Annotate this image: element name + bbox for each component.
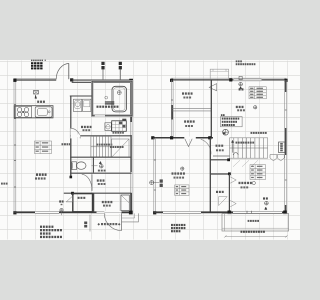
1F hall label bbox=[97, 179, 99, 181]
1F washroom door bbox=[69, 128, 71, 138]
2F stairs labels bbox=[251, 132, 253, 134]
reference grid bbox=[0, 61, 300, 240]
1F washer and vanity bbox=[74, 99, 82, 111]
1F kitchen counter bbox=[14, 106, 53, 118]
2F fukinuke label bbox=[150, 181, 154, 185]
1F top wall left segment bbox=[14, 77, 57, 79]
1F washroom north wall bbox=[70, 95, 92, 97]
1F kitchen symbol bbox=[34, 90, 39, 94]
2F room9 label bbox=[172, 172, 174, 174]
1F entrance door bbox=[121, 213, 123, 230]
1F sink bbox=[35, 107, 52, 117]
2F wall room10-11 bbox=[172, 108, 211, 110]
1F wall toilet west bbox=[70, 138, 72, 177]
1F toilet bbox=[72, 162, 77, 170]
1F understairs storage bbox=[112, 139, 129, 157]
1F storage door leaf bbox=[66, 196, 72, 202]
2F hall landing edge bbox=[213, 155, 230, 157]
2F fukinuke annotation bbox=[221, 114, 223, 116]
1F bath north wall bbox=[72, 79, 132, 81]
1F bath faucet bbox=[105, 101, 114, 102]
1F washing machine bbox=[105, 123, 111, 131]
1F hall south wall bbox=[64, 192, 132, 194]
1F legend black squares bbox=[31, 60, 33, 62]
2F room6 table bbox=[250, 165, 266, 180]
1F water heater label bbox=[113, 132, 115, 134]
2F right wall bbox=[284, 80, 286, 213]
1F hall north wall bbox=[70, 172, 131, 174]
2F room12 label bbox=[236, 106, 238, 108]
1F vent symbol right bbox=[119, 62, 122, 65]
1F porch label bbox=[97, 223, 100, 226]
2F balcony bbox=[222, 214, 289, 231]
2F vent top bbox=[239, 76, 242, 79]
1F toilet vent bbox=[99, 161, 101, 163]
2F hall door arc bbox=[201, 139, 211, 154]
2F room10 label bbox=[182, 92, 184, 94]
2F jog wall bbox=[152, 137, 213, 139]
2F stair arrow bbox=[232, 141, 234, 152]
1F bottom wall bbox=[14, 211, 132, 213]
1F back door bbox=[68, 63, 70, 79]
2F room9 table bbox=[175, 185, 189, 196]
2F closet bump right bbox=[279, 142, 285, 153]
1F understairs label bbox=[62, 143, 64, 145]
1F LDK label bbox=[36, 173, 38, 176]
2F vent bottom bbox=[263, 197, 265, 199]
1F washroom south wall bbox=[70, 135, 131, 137]
1F top wall pillar bbox=[70, 78, 73, 81]
1F bathtub bbox=[112, 86, 127, 112]
2F room9 door leaf bbox=[185, 139, 192, 147]
1F water heater bbox=[112, 121, 127, 132]
2F balcony hanger label bbox=[248, 220, 250, 222]
2F bottom wall bbox=[154, 211, 286, 213]
1F toilet east wall bbox=[92, 157, 94, 172]
1F porch steps bbox=[122, 213, 139, 222]
1F terrace label bbox=[59, 200, 61, 202]
1F toilet label bbox=[98, 170, 100, 172]
1F LDK table bbox=[35, 141, 52, 154]
1F shoe cabinet bbox=[121, 195, 129, 211]
1F stairs bbox=[91, 136, 111, 157]
1F storage bbox=[73, 194, 93, 212]
1F corner pillar NE bbox=[129, 79, 133, 83]
2F dormer outline bbox=[210, 69, 228, 79]
1F bath door sliding bbox=[95, 114, 105, 117]
2F balcony label bbox=[241, 231, 243, 233]
1F genkan label bbox=[102, 201, 104, 203]
2F room10 door bbox=[209, 84, 216, 91]
2F wall below stairs bbox=[210, 159, 230, 161]
2F stairs bbox=[230, 138, 268, 158]
2F ceiling hatch bbox=[233, 160, 240, 167]
2F notes text block bbox=[171, 224, 173, 226]
1F washroom label bbox=[81, 126, 83, 128]
2F hall label bbox=[216, 145, 218, 147]
2F balcony door leaf bbox=[219, 197, 228, 206]
2F interior wall x210 lower bbox=[209, 138, 211, 213]
1F bottom big pillar bbox=[129, 211, 133, 215]
2F caption text bbox=[236, 60, 238, 62]
2F room9 vent bbox=[181, 167, 184, 170]
1F genkan wall bbox=[93, 193, 95, 212]
2F interior wall x212 bbox=[210, 81, 212, 138]
2F top wall bbox=[171, 77, 286, 79]
2F left wall lower bbox=[153, 138, 155, 214]
white drawing band bbox=[0, 60, 300, 240]
2F room11 label bbox=[184, 120, 186, 122]
1F bath label bbox=[97, 106, 99, 108]
2F room12 table bbox=[249, 87, 266, 99]
1F right wall bbox=[129, 81, 131, 213]
1F stairs label bbox=[96, 144, 98, 146]
1F vent symbol left bbox=[101, 62, 104, 65]
1F notes text block bbox=[40, 226, 42, 228]
1F wall washroom west bbox=[70, 96, 72, 128]
2F room6 label bbox=[239, 182, 241, 184]
left edge dimension label bbox=[1, 183, 3, 185]
1F bathroom walls bbox=[92, 81, 132, 115]
1F LDK door bbox=[91, 174, 93, 190]
1F stove bbox=[15, 106, 32, 117]
2F closet wall bbox=[210, 173, 230, 175]
1F kitchen label bbox=[37, 101, 39, 103]
1F toilet south area wall bbox=[70, 156, 131, 158]
2F closet door leafs bbox=[230, 177, 236, 183]
2F balcony dimension line bbox=[225, 235, 287, 237]
2F left wall upper bbox=[170, 80, 172, 138]
2F bifold doors bbox=[270, 155, 277, 161]
2F closet label bbox=[216, 191, 218, 193]
1F left wall bbox=[13, 80, 15, 213]
1F vertical label right of notes bbox=[84, 222, 87, 225]
